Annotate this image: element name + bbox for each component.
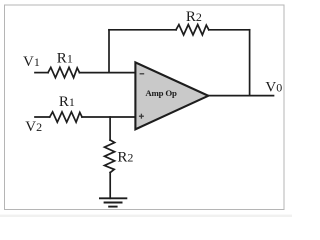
ground symbol [99, 198, 127, 206]
resistor R2 grounded zigzag [105, 140, 115, 173]
op-amp U1 triangle [135, 62, 208, 129]
wire R1 to op-amp non-inverting input [82, 116, 135, 118]
wire node to grounded R2 vertical [109, 117, 111, 140]
wire feedback top right segment [209, 29, 250, 31]
svg-text:Amp Op: Amp Op [145, 88, 177, 98]
wire feedback left vertical [108, 30, 110, 73]
resistor R2 feedback zigzag [176, 25, 209, 35]
wire V2 stub [35, 116, 50, 118]
svg-text:R2: R2 [117, 149, 133, 165]
wire R1 to op-amp inverting input [80, 72, 136, 74]
bottom page edge [0, 215, 292, 217]
wire output [208, 95, 274, 97]
op-amp inverting pin minus sign [140, 73, 145, 75]
wire V1 stub [35, 72, 48, 74]
wire feedback top left segment [109, 29, 176, 31]
border frame [5, 5, 285, 210]
svg-text:R1: R1 [57, 51, 73, 67]
svg-text:R2: R2 [186, 9, 202, 25]
resistor R1 bottom zigzag [50, 112, 82, 122]
resistor R1 top zigzag [48, 67, 80, 77]
svg-text:R1: R1 [59, 94, 75, 110]
svg-text:V0: V0 [265, 80, 282, 96]
wire R2 to ground [109, 173, 111, 199]
wire feedback right vertical [249, 30, 251, 96]
op-amp non-inverting pin plus sign [139, 114, 144, 119]
svg-text:V2: V2 [25, 119, 42, 135]
svg-text:V1: V1 [23, 54, 40, 70]
